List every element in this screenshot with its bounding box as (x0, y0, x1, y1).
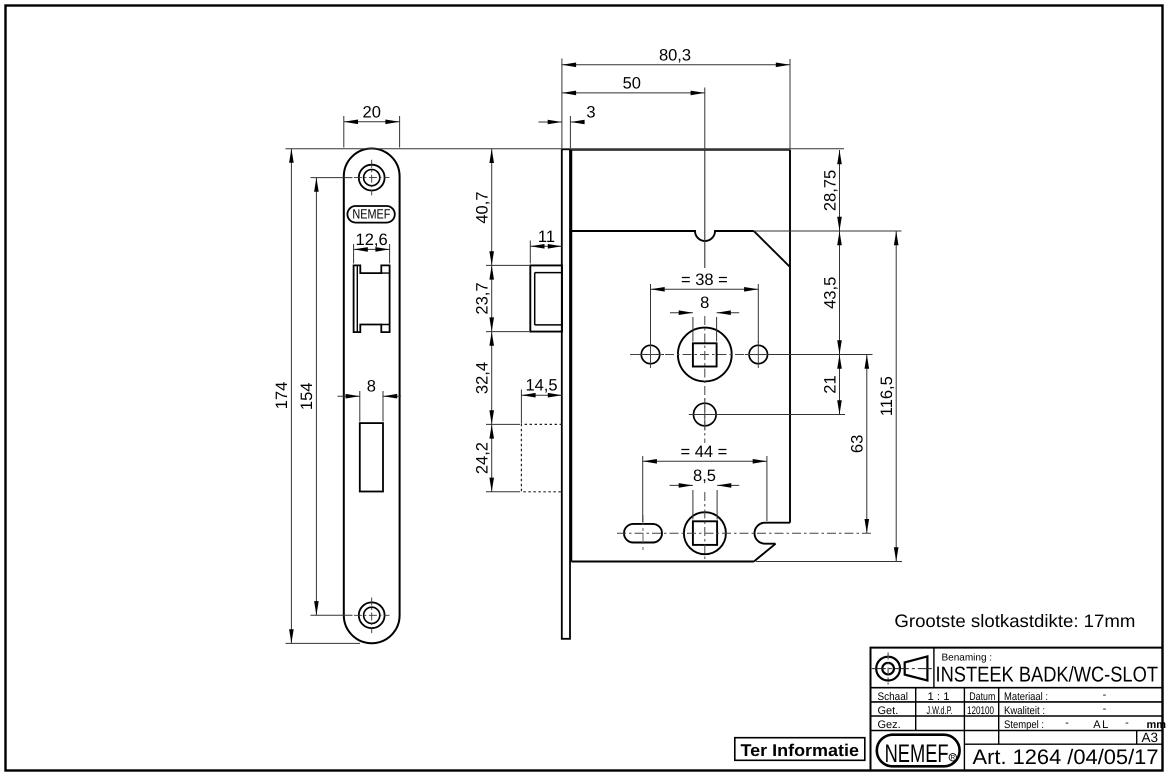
dim 174 bottom extension line (286, 642, 361, 644)
svg-text:116,5: 116,5 (878, 376, 896, 416)
svg-text:28,75: 28,75 (821, 170, 839, 211)
svg-text:Materiaal :: Materiaal : (1004, 691, 1048, 703)
title block vertical divider value/datum (963, 688, 965, 771)
svg-text:AL: AL (1093, 719, 1109, 731)
dim 8 (follower) arrows outside (670, 312, 693, 314)
dim 14,5 extension line (520, 390, 522, 424)
svg-text:20: 20 (363, 104, 381, 122)
chained dims 40,7 / 23,7 / 32,4 / 24,2 vertical line (491, 149, 493, 266)
title block line above Art row (964, 743, 1163, 745)
extension line deadbolt bottom (486, 491, 520, 493)
svg-text:Kwaliteit :: Kwaliteit : (1004, 705, 1045, 717)
latch bolt side view outline (530, 265, 562, 331)
dim 11 line (530, 245, 562, 247)
extension line follower center right (770, 354, 873, 356)
bottom screw hole inner circle (364, 607, 380, 623)
svg-text:-: - (1103, 689, 1107, 701)
extension line x=562 for top dims (561, 59, 563, 149)
svg-text:-: - (1065, 717, 1069, 729)
svg-text:43,5: 43,5 (821, 277, 839, 309)
svg-text:NEMEF: NEMEF (352, 206, 390, 221)
svg-text:174: 174 (273, 382, 291, 410)
latch cutout inner lip line (357, 265, 389, 332)
svg-text:32,4: 32,4 (474, 362, 492, 394)
dim 174 line (290, 149, 292, 644)
title block vertical divider label/value (915, 688, 917, 731)
svg-text:mm: mm (1147, 719, 1167, 731)
lock case top edge (thick over case) (571, 149, 790, 151)
dim 20 line (344, 121, 400, 123)
svg-text:-: - (1103, 703, 1107, 715)
svg-text:R: R (950, 755, 955, 762)
first-angle projection symbol cone (905, 656, 928, 680)
svg-text:12,6: 12,6 (356, 231, 388, 249)
dim =44= extension lines (643, 456, 767, 522)
extension line middle hole right (717, 414, 846, 416)
cylinder circle (684, 512, 726, 554)
oval mounting slot (624, 524, 662, 543)
dim 11 extension line (529, 241, 531, 264)
cylinder square hole (693, 521, 717, 545)
svg-text:120100: 120100 (967, 705, 994, 717)
dim 80,3 line (562, 64, 790, 66)
dim 8 (deadbolt) extension lines (360, 391, 383, 422)
dim 63 line (866, 355, 868, 534)
horizontal centerline through cylinder row (617, 532, 872, 534)
first-angle projection symbol circles (876, 657, 900, 681)
dim 154 top extension line (311, 177, 353, 179)
lock case left edge (570, 150, 572, 562)
projection symbol centerline (872, 668, 933, 670)
bottom screw hole centerlines (354, 598, 390, 634)
extension line left of faceplate top (long thin line y=148.5) (286, 148, 845, 150)
dim =38= extension lines (651, 284, 759, 343)
NEMEF registered mark (949, 754, 956, 761)
svg-text:= 44 =: = 44 = (681, 443, 728, 461)
extension line bottom edge right (756, 561, 902, 563)
svg-text:= 38 =: = 38 = (681, 271, 728, 289)
latch bolt side view inner step (535, 273, 561, 325)
left fixing hole (641, 345, 659, 363)
deadbolt side view hidden (dotted) (521, 424, 562, 491)
svg-text:1 : 1: 1 : 1 (928, 691, 950, 703)
lock case right edge (789, 150, 791, 523)
svg-text:Ter Informatie: Ter Informatie (741, 741, 860, 760)
open mounting slot lower right (755, 523, 790, 544)
title block outer frame (871, 648, 1163, 771)
svg-text:Datum: Datum (969, 691, 995, 703)
svg-text:-: - (1125, 717, 1129, 729)
middle small hole centerlines (689, 399, 721, 431)
extension line deadbolt top (486, 423, 520, 425)
extension line x=704.8 for dim 50 (704, 88, 706, 151)
svg-text:23,7: 23,7 (474, 282, 492, 314)
svg-text:8: 8 (700, 294, 709, 312)
svg-text:80,3: 80,3 (659, 46, 691, 64)
svg-text:A3: A3 (1141, 730, 1158, 745)
dim 50 line (562, 92, 705, 94)
svg-text:Grootste slotkastdikte: 17mm: Grootste slotkastdikte: 17mm (894, 611, 1135, 631)
bottom screw hole outer circle (359, 602, 385, 628)
follower circle (678, 328, 732, 382)
svg-text:Art. 1264 /04/05/17: Art. 1264 /04/05/17 (973, 746, 1159, 769)
lock case shoulder edge with finger notch (571, 231, 754, 241)
faceplate side view strip (562, 149, 570, 639)
svg-text:3: 3 (586, 104, 595, 122)
extension line x=570.4 for dim 3 (569, 116, 571, 148)
top screw hole outer circle (359, 165, 385, 191)
dim =38= line (651, 288, 759, 290)
svg-text:14,5: 14,5 (525, 377, 557, 395)
oval slot vertical centerline (642, 515, 644, 552)
dim =44= line (643, 460, 767, 462)
dim 116,5 line (895, 231, 897, 562)
dim 8 (follower) extension lines (693, 317, 717, 342)
latch cutout front view (354, 265, 390, 332)
extension line latch top (486, 264, 529, 266)
Ter informatie box (735, 738, 865, 761)
dim 8,5 extension lines (693, 490, 717, 520)
top screw hole centerlines (354, 160, 390, 196)
title block vertical divider datum/material (998, 688, 1000, 745)
svg-text:50: 50 (623, 74, 641, 92)
vertical centerline through follower and cylinder (704, 150, 706, 268)
follower square hole (693, 343, 717, 366)
svg-text:8,5: 8,5 (693, 467, 716, 485)
dim 154 line (315, 178, 317, 616)
right fixing hole centerlines (745, 341, 772, 368)
dim 8,5 arrows outside (670, 484, 693, 486)
dim 12,6 line (354, 248, 390, 250)
lock case bottom edge (571, 561, 754, 563)
svg-text:Stempel :: Stempel : (1004, 719, 1044, 731)
dim 12,6 extension lines (354, 244, 390, 264)
svg-text:8: 8 (367, 378, 376, 396)
horizontal centerline through follower (630, 354, 782, 356)
extension line shoulder right (754, 230, 902, 232)
faceplate front view outline (344, 149, 400, 644)
right fixing hole (749, 345, 767, 363)
middle small hole (694, 403, 717, 426)
dim 154 bottom extension line (311, 614, 353, 616)
title block vertical divider logo cell (933, 648, 935, 688)
NEMEF logo stadium (877, 735, 960, 767)
svg-text:11: 11 (538, 228, 555, 246)
svg-text:40,7: 40,7 (474, 192, 492, 224)
dim 3 arrows (outside) (539, 121, 562, 123)
chained dims 28,75 / 43,5 / 21 vertical line (839, 150, 841, 231)
deadbolt cutout front view (360, 423, 383, 491)
dim 8 (deadbolt) arrows outside (338, 395, 360, 397)
top screw hole inner circle (364, 170, 380, 186)
NEMEF oval on faceplate (347, 206, 394, 223)
svg-text:Schaal: Schaal (878, 691, 909, 703)
svg-text:154: 154 (298, 383, 316, 411)
A3 box (1136, 731, 1138, 745)
svg-text:Get.: Get. (878, 705, 899, 717)
extension line x=790 for dim 80,3 (789, 59, 791, 150)
svg-text:63: 63 (849, 435, 867, 453)
svg-text:J.W.d.P.: J.W.d.P. (927, 705, 953, 717)
left fixing hole centerlines (637, 341, 664, 368)
svg-text:NEMEF: NEMEF (885, 740, 949, 768)
extension line latch bottom (486, 331, 529, 333)
dim 20 extension lines (344, 116, 400, 148)
lock case bottom-right chamfer (754, 544, 776, 562)
svg-text:INSTEEK BADK/WC-SLOT: INSTEEK BADK/WC-SLOT (936, 663, 1159, 687)
projection symbol vertical centerline (887, 653, 889, 685)
svg-text:24,2: 24,2 (474, 442, 492, 474)
svg-text:Gez.: Gez. (878, 719, 901, 731)
dim 14,5 line (521, 394, 562, 396)
svg-text:21: 21 (821, 375, 839, 393)
lock case top-right chamfer (754, 231, 790, 267)
title block row lines (871, 688, 1163, 731)
